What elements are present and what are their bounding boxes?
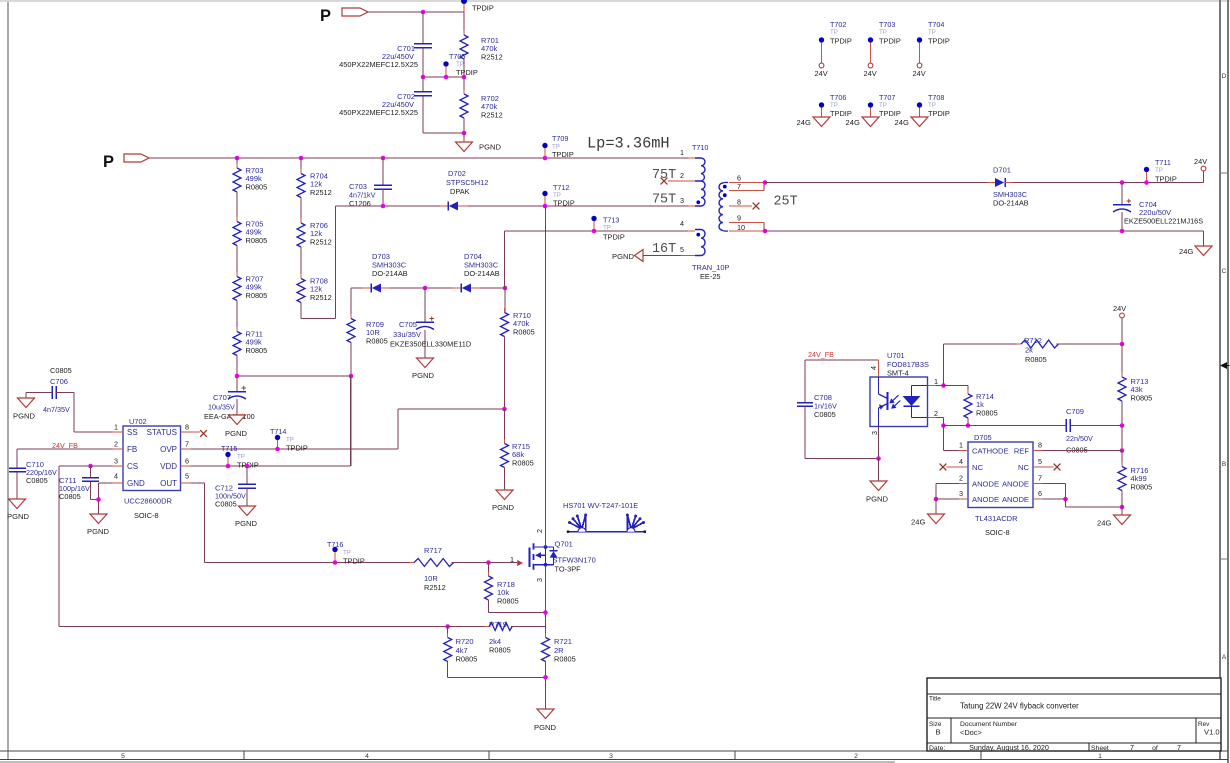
svg-text:6: 6 (1038, 489, 1042, 498)
label Lp=3.36mH (587, 135, 670, 153)
op-amp U701 FOD817B3S optocoupler (869, 351, 929, 435)
test point T707 to 24G (846, 93, 901, 127)
svg-text:V1.0: V1.0 (1204, 728, 1220, 737)
svg-text:TPDIP: TPDIP (472, 4, 494, 13)
svg-text:7: 7 (1177, 743, 1181, 752)
svg-text:Q701: Q701 (555, 540, 573, 549)
resistor R706 (297, 198, 332, 252)
svg-text:TP: TP (928, 102, 936, 109)
svg-text:450PX22MEFC12.5X25: 450PX22MEFC12.5X25 (339, 60, 418, 69)
resistor R714 (944, 386, 998, 428)
resistor R702 (460, 77, 503, 133)
svg-text:25T: 25T (774, 195, 798, 210)
svg-text:D: D (1222, 73, 1227, 80)
svg-text:PGND: PGND (612, 252, 634, 261)
svg-text:R719: R719 (489, 620, 507, 629)
net label 24V_FB right (808, 350, 834, 359)
wire REF to divider (1043, 450, 1123, 452)
svg-text:T714: T714 (270, 427, 286, 436)
wire to D705 cathode (944, 426, 959, 451)
svg-text:3: 3 (609, 753, 613, 760)
wire D701 to 24V output (1013, 182, 1204, 184)
svg-text:R0805: R0805 (512, 459, 534, 468)
power port 24V output (1194, 157, 1207, 183)
capacitor C712 (215, 464, 256, 509)
wire CS net (59, 466, 113, 627)
wire R709 bottom to VDD node (349, 343, 354, 467)
resistor R709 (347, 288, 388, 347)
svg-text:3: 3 (870, 431, 879, 435)
resistor R707 (233, 246, 267, 306)
svg-text:24G: 24G (1097, 519, 1111, 528)
svg-text:TPDIP: TPDIP (928, 37, 950, 46)
svg-text:HS701 WV-T247-101E: HS701 WV-T247-101E (563, 501, 638, 510)
capacitor C706 (26, 366, 74, 414)
capacitor C709 (1066, 407, 1093, 455)
resistor R713 (1118, 344, 1152, 426)
wire pin3 drain net (545, 205, 695, 207)
svg-text:ANODE: ANODE (972, 479, 999, 488)
transistor Q701 STFW3N170 (510, 529, 596, 582)
svg-text:DPAK: DPAK (450, 187, 470, 196)
svg-text:TPDIP: TPDIP (603, 233, 625, 242)
svg-text:24G: 24G (797, 118, 811, 127)
zone numbers bottom (121, 753, 1102, 760)
capacitor C704 (1113, 183, 1203, 232)
resistor R717 (410, 546, 457, 592)
sheet center arrow marker (1220, 362, 1230, 369)
wire pin4 aux net (505, 231, 696, 288)
ground PGND at source network (534, 709, 556, 732)
svg-text:Sunday, August 16, 2020: Sunday, August 16, 2020 (969, 743, 1049, 752)
wire R717 to gate (452, 560, 518, 565)
svg-text:4: 4 (365, 753, 369, 760)
wire R711 bottom to VDD feed node (237, 356, 351, 377)
test point T703 to 24V (864, 20, 901, 78)
svg-text:C0805: C0805 (215, 500, 237, 509)
svg-text:24V: 24V (815, 69, 828, 78)
svg-text:R0805: R0805 (246, 183, 268, 192)
svg-text:EKZE500ELL221MJ16S: EKZE500ELL221MJ16S (1124, 217, 1203, 226)
svg-text:Lp=3.36mH: Lp=3.36mH (587, 135, 670, 153)
diode D704 (425, 252, 505, 293)
svg-text:2: 2 (854, 753, 858, 760)
svg-text:TPDIP: TPDIP (879, 37, 901, 46)
svg-text:24V_FB: 24V_FB (808, 350, 834, 359)
svg-text:SS: SS (127, 428, 138, 437)
svg-text:A: A (1222, 654, 1227, 661)
transformer T710 TRAN_10P (692, 143, 729, 281)
capacitor C703 (349, 158, 392, 208)
svg-text:EKZE350ELL330ME11D: EKZE350ELL330ME11D (390, 340, 471, 349)
resistor R712 (1017, 336, 1123, 364)
svg-text:24V: 24V (1194, 157, 1207, 166)
svg-text:R0805: R0805 (1131, 394, 1153, 403)
svg-text:TPDIP: TPDIP (343, 557, 365, 566)
capacitor C705 (390, 288, 471, 358)
svg-text:450PX22MEFC12.5X25: 450PX22MEFC12.5X25 (339, 108, 418, 117)
svg-text:NC: NC (972, 463, 983, 472)
svg-text:TL431ACDR: TL431ACDR (975, 514, 1018, 523)
svg-text:5: 5 (185, 472, 189, 481)
wire drain to transformer pin3 (545, 206, 547, 547)
wire VDD net (191, 376, 351, 466)
svg-text:TP: TP (830, 29, 838, 36)
svg-text:STATUS: STATUS (147, 428, 177, 437)
capacitor C710 (9, 460, 57, 499)
svg-text:B: B (1222, 461, 1226, 468)
svg-text:PGND: PGND (225, 429, 247, 438)
svg-text:UCC28600DR: UCC28600DR (124, 497, 173, 506)
ground 24G at R716 (1097, 507, 1131, 528)
svg-text:6: 6 (185, 457, 189, 466)
zone letters right (1222, 73, 1227, 661)
wire C701 branch top (422, 12, 424, 43)
svg-text:R0805: R0805 (366, 337, 388, 346)
svg-text:4: 4 (680, 219, 684, 228)
test point T704 to 24V (913, 20, 950, 78)
svg-text:75T: 75T (652, 193, 676, 208)
ground PGND at U702 GND (87, 514, 109, 536)
svg-text:T703: T703 (879, 20, 895, 29)
svg-text:9: 9 (737, 214, 741, 223)
svg-text:7: 7 (185, 440, 189, 449)
svg-text:R721: R721 (554, 637, 572, 646)
svg-text:D702: D702 (448, 169, 466, 178)
svg-text:TP: TP (830, 102, 838, 109)
wire C706 to SS pin (74, 393, 113, 433)
svg-text:DO-214AB: DO-214AB (464, 269, 500, 278)
svg-text:STPSC5H12: STPSC5H12 (446, 178, 488, 187)
capacitor C702 (339, 77, 432, 133)
svg-text:<Doc>: <Doc> (960, 728, 982, 737)
svg-text:R0805: R0805 (246, 346, 268, 355)
wire source down (543, 565, 548, 638)
node junction upper rail at C701 (421, 10, 426, 15)
ground PGND at C706 (13, 393, 35, 421)
svg-text:R0805: R0805 (246, 236, 268, 245)
svg-text:3: 3 (959, 489, 963, 498)
wire upper P rail (368, 11, 464, 13)
svg-text:24V: 24V (864, 69, 877, 78)
ground PGND input filter (456, 142, 502, 152)
svg-text:C0805: C0805 (814, 410, 836, 419)
svg-text:8: 8 (185, 423, 189, 432)
svg-text:T708: T708 (928, 93, 944, 102)
svg-text:C705: C705 (399, 320, 417, 329)
wire bottom row to PGND (423, 131, 466, 142)
svg-text:CATHODE: CATHODE (972, 446, 1009, 455)
svg-text:1: 1 (934, 377, 938, 386)
svg-text:U702: U702 (129, 417, 147, 426)
power arrow PGND transformer pin5 (612, 250, 695, 262)
wire CS rail bottom (59, 624, 489, 629)
svg-text:TPDIP: TPDIP (830, 37, 852, 46)
svg-text:TP: TP (879, 29, 887, 36)
transformer pin8 no-connect (729, 203, 759, 210)
svg-text:C709: C709 (1066, 407, 1084, 416)
svg-text:R720: R720 (456, 637, 474, 646)
svg-text:3: 3 (680, 196, 684, 205)
svg-text:8: 8 (1038, 441, 1042, 450)
svg-text:R0805: R0805 (554, 655, 576, 664)
ground 24G output (1179, 231, 1212, 256)
svg-text:CS: CS (127, 462, 138, 471)
svg-text:R0805: R0805 (456, 655, 478, 664)
svg-text:R0805: R0805 (246, 291, 268, 300)
test point T706 to 24G (797, 93, 852, 127)
wire R708 bottom to clamp node (301, 206, 336, 319)
wire FB net (17, 449, 113, 468)
wire mid node row (423, 76, 464, 78)
svg-text:24G: 24G (911, 518, 925, 527)
svg-text:OUT: OUT (160, 479, 177, 488)
ground PGND at C710 (7, 499, 29, 521)
svg-text:7: 7 (1038, 474, 1042, 483)
svg-text:C: C (1222, 268, 1227, 275)
svg-text:R2512: R2512 (481, 111, 503, 120)
svg-text:ANODE: ANODE (1002, 479, 1029, 488)
svg-text:TP: TP (343, 550, 351, 557)
capacitor C711 (59, 464, 99, 501)
svg-text:TPDIP: TPDIP (553, 199, 575, 208)
svg-text:1: 1 (1098, 753, 1102, 760)
svg-text:TPDIP: TPDIP (928, 109, 950, 118)
svg-text:Tatung 22W 24V flyback convert: Tatung 22W 24V flyback converter (960, 702, 1079, 711)
wire opto emitter to PGND (805, 427, 881, 482)
svg-text:1: 1 (959, 441, 963, 450)
resistor R703 (233, 158, 267, 197)
svg-text:4n7/35V: 4n7/35V (43, 405, 70, 414)
svg-text:TP: TP (237, 454, 245, 461)
svg-text:TPDIP: TPDIP (1155, 175, 1177, 184)
resistor R710 (501, 286, 535, 409)
wire opto output to R712 (944, 344, 1022, 386)
svg-text:R2512: R2512 (424, 583, 446, 592)
svg-text:7: 7 (1130, 743, 1134, 752)
svg-text:PGND: PGND (235, 519, 257, 528)
svg-text:B: B (935, 728, 940, 737)
svg-text:T716: T716 (327, 540, 343, 549)
svg-text:STFW3N170: STFW3N170 (553, 556, 596, 565)
svg-text:2: 2 (535, 529, 544, 533)
wire C701 bottom to mid node (422, 48, 424, 78)
resistor R720 (444, 627, 478, 678)
svg-text:R0805: R0805 (513, 328, 535, 337)
svg-text:C0805: C0805 (26, 476, 48, 485)
svg-text:ANODE: ANODE (1002, 495, 1029, 504)
svg-text:4: 4 (959, 457, 963, 466)
svg-text:22n/50V: 22n/50V (1066, 434, 1093, 443)
power port 24V feedback (1113, 304, 1126, 346)
test point T713 (591, 216, 625, 242)
svg-text:T710: T710 (692, 143, 708, 152)
svg-text:2: 2 (959, 474, 963, 483)
svg-text:Document Number: Document Number (960, 721, 1018, 728)
wire OUT net to gate (191, 483, 414, 563)
op-amp U702 UCC28600DR controller (123, 417, 181, 520)
svg-text:NC: NC (1018, 463, 1029, 472)
wire main P rail to transformer pin1 (149, 157, 696, 159)
svg-text:24G: 24G (846, 118, 860, 127)
svg-text:T702: T702 (830, 20, 846, 29)
svg-text:DO-214AB: DO-214AB (993, 199, 1029, 208)
test point T711 (1144, 158, 1177, 185)
wire GND pin to PGND (96, 483, 112, 514)
svg-text:R0805: R0805 (497, 597, 519, 606)
svg-text:DO-214AB: DO-214AB (372, 269, 408, 278)
U702 pin leads and numbers (113, 423, 192, 484)
svg-text:P: P (103, 153, 114, 171)
transformer pin2 no-connect (661, 178, 695, 185)
svg-text:REF: REF (1014, 446, 1030, 455)
heatsink HS701 (563, 501, 646, 533)
svg-text:10u/35V: 10u/35V (208, 403, 235, 412)
ground PGND snubber (412, 358, 434, 380)
test point T705 (443, 52, 478, 77)
svg-text:VDD: VDD (160, 462, 177, 471)
resistor R715 (501, 409, 534, 490)
svg-text:PGND: PGND (7, 512, 29, 521)
svg-text:2: 2 (934, 409, 938, 418)
svg-text:ANODE: ANODE (972, 495, 999, 504)
U702 STATUS pin no-connect (191, 430, 207, 437)
svg-text:PGND: PGND (13, 412, 35, 421)
svg-text:P: P (320, 7, 331, 25)
svg-text:2: 2 (680, 171, 684, 180)
op-amp D705 TL431ACDR (968, 433, 1033, 537)
test point T715 (221, 444, 259, 470)
svg-text:R0805: R0805 (1131, 483, 1153, 492)
svg-text:1: 1 (114, 423, 118, 432)
svg-text:8: 8 (737, 198, 741, 207)
svg-text:1: 1 (510, 555, 514, 564)
test point T716 (327, 540, 365, 566)
svg-text:D701: D701 (993, 166, 1011, 175)
svg-text:T711: T711 (1155, 158, 1171, 167)
svg-text:Title: Title (929, 696, 941, 703)
svg-text:T712: T712 (553, 183, 569, 192)
wire secondary return rail (765, 229, 1204, 234)
svg-text:33u/35V: 33u/35V (393, 330, 421, 339)
wire R713 to REF rail (1120, 426, 1125, 453)
net label 24V_FB left (52, 441, 78, 450)
svg-text:R717: R717 (424, 546, 442, 555)
svg-text:T709: T709 (552, 134, 568, 143)
svg-text:EE-25: EE-25 (700, 272, 721, 281)
ground PGND feedback (866, 481, 888, 504)
winding labels 75T 75T 16T 25T (652, 168, 798, 257)
svg-text:TPDIP: TPDIP (879, 109, 901, 118)
svg-text:R2512: R2512 (481, 53, 503, 62)
node C705 junction (423, 286, 428, 291)
svg-text:24V: 24V (1113, 304, 1126, 313)
wire secondary pins 6-7 tie (729, 180, 767, 190)
svg-text:GND: GND (127, 479, 145, 488)
wire 24V_FB to opto collector (805, 360, 879, 402)
resistor R705 (233, 192, 267, 250)
svg-text:T715: T715 (221, 444, 237, 453)
node junctions mid row (421, 75, 467, 80)
svg-text:TP: TP (1155, 167, 1163, 174)
test point T701 (461, 0, 494, 13)
svg-text:PGND: PGND (534, 723, 556, 732)
diode D702 (440, 169, 545, 211)
test point T702 to 24V (815, 20, 852, 78)
ground 24G at D705 left (911, 514, 945, 527)
node junctions on P rail (235, 156, 548, 161)
svg-text:2k: 2k (1025, 346, 1033, 355)
port P upper (320, 7, 368, 25)
svg-text:R2512: R2512 (310, 188, 332, 197)
resistor R718 (485, 563, 546, 613)
svg-text:R2512: R2512 (310, 293, 332, 302)
svg-text:R712: R712 (1024, 336, 1042, 345)
node C704 top junction (1120, 180, 1125, 185)
svg-text:TPDIP: TPDIP (552, 150, 574, 159)
resistor R721 (542, 633, 576, 709)
svg-text:PGND: PGND (866, 495, 888, 504)
svg-text:5: 5 (1038, 457, 1042, 466)
resistor R708 (297, 247, 332, 307)
svg-text:SOIC-8: SOIC-8 (134, 511, 159, 520)
wire OVP net to divider (191, 407, 507, 449)
svg-text:U701: U701 (887, 351, 905, 360)
ground PGND at R715 (492, 490, 514, 512)
transformer pin numbers (680, 148, 745, 254)
svg-text:T706: T706 (830, 93, 846, 102)
U701 pin2 lead (928, 409, 944, 426)
svg-text:FB: FB (127, 445, 137, 454)
port P lower (103, 153, 149, 171)
svg-text:PGND: PGND (412, 371, 434, 380)
ground PGND at C712 (235, 506, 257, 528)
svg-text:TP: TP (286, 437, 294, 444)
capacitor C707 (204, 374, 255, 421)
test point T708 to 24G (895, 93, 950, 127)
svg-text:T704: T704 (928, 20, 944, 29)
svg-text:SOIC-8: SOIC-8 (985, 528, 1010, 537)
svg-text:TP: TP (928, 29, 936, 36)
svg-text:24G: 24G (895, 118, 909, 127)
svg-text:T707: T707 (879, 93, 895, 102)
svg-text:2: 2 (114, 440, 118, 449)
svg-text:PGND: PGND (87, 527, 109, 536)
svg-text:PGND: PGND (479, 143, 501, 152)
D705 pin leads and numbers (959, 441, 1043, 500)
diode D701 (987, 166, 1029, 208)
svg-text:SMT-4: SMT-4 (887, 369, 909, 378)
svg-text:5: 5 (121, 753, 125, 760)
svg-text:3: 3 (535, 578, 544, 582)
svg-text:1: 1 (680, 148, 684, 157)
svg-text:R0805: R0805 (976, 409, 998, 418)
test point T714 (270, 427, 308, 453)
svg-text:TPDIP: TPDIP (456, 68, 478, 77)
test point T709 (542, 134, 574, 159)
title block (927, 678, 1221, 752)
wire D705 anodes left to 24G (934, 484, 959, 515)
svg-text:Sheet: Sheet (1091, 745, 1109, 752)
U701 pin1 lead (928, 377, 946, 388)
svg-text:Date:: Date: (929, 745, 945, 752)
svg-text:TRAN_10P: TRAN_10P (692, 263, 729, 272)
svg-text:R0805: R0805 (489, 646, 511, 655)
D705 NC pins no-connect (940, 464, 1061, 471)
ground PGND at C707 (225, 415, 247, 438)
svg-text:16T: 16T (652, 242, 676, 257)
svg-text:R2512: R2512 (310, 238, 332, 247)
